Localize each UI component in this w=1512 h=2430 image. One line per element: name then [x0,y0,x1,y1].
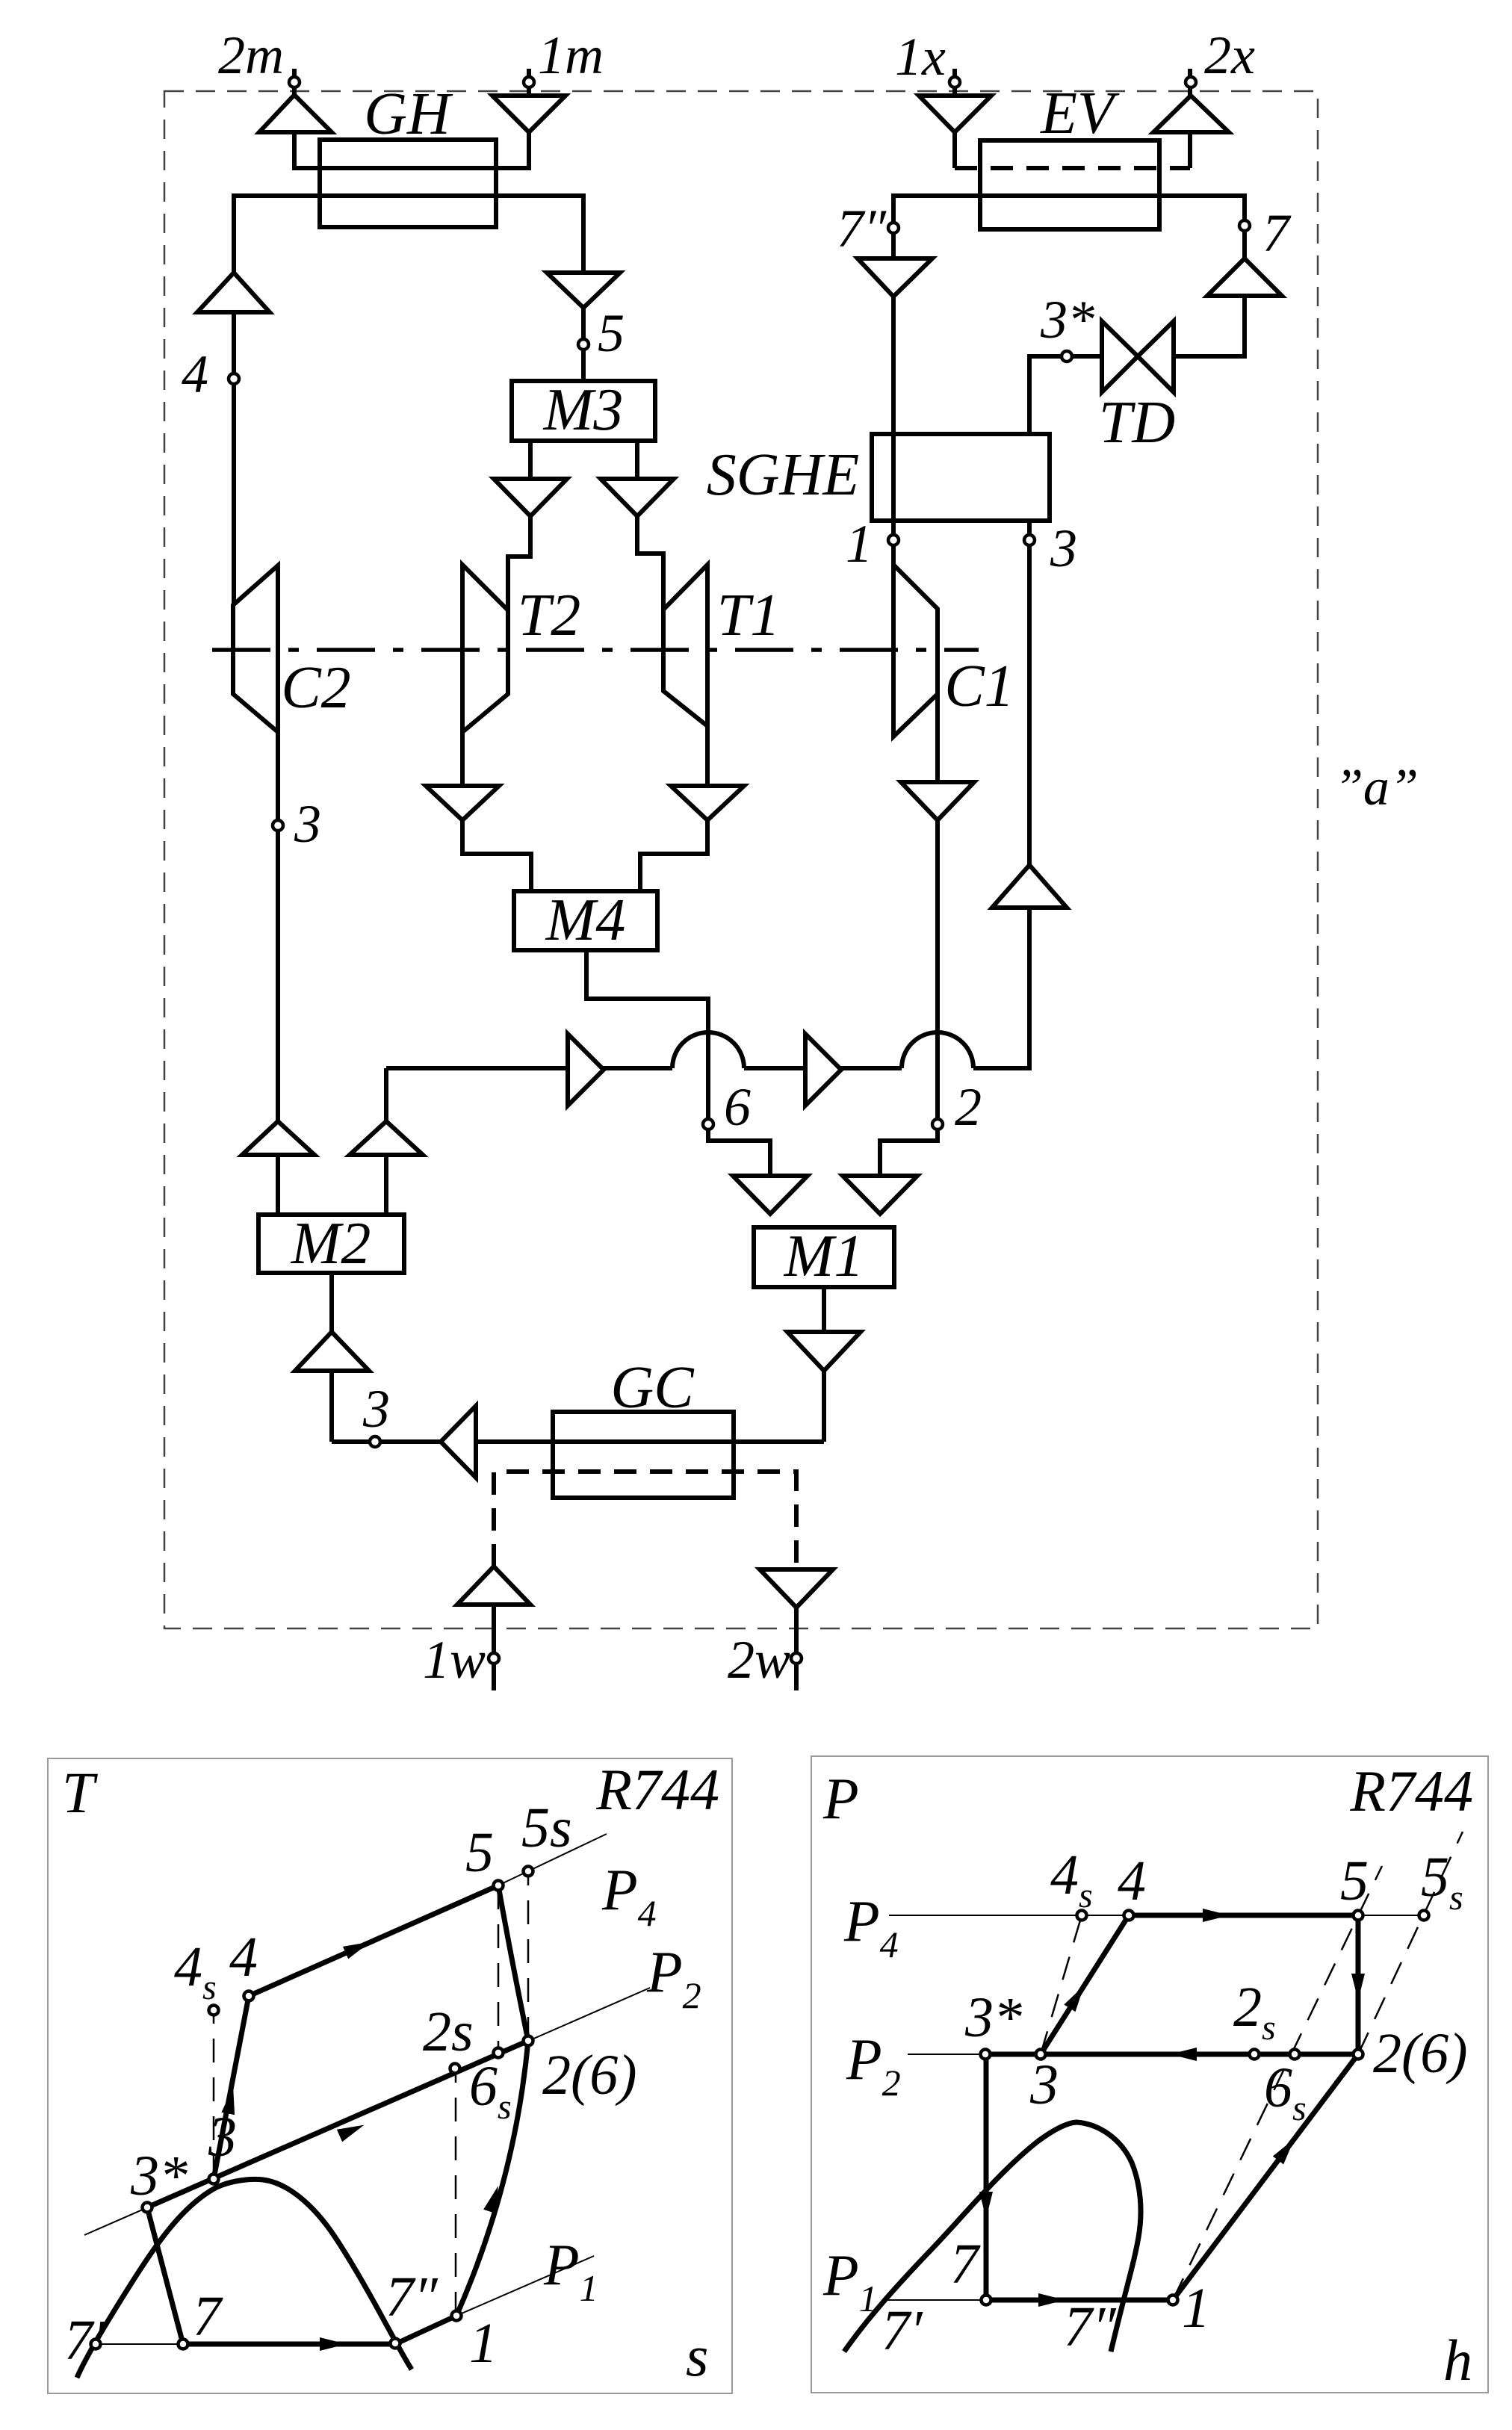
wire M1 outlet to GC line [822,1287,826,1442]
label 1x [895,27,946,87]
svg-text:2s: 2s [423,2000,474,2063]
isentrope dashed 2(6)-5s [527,1873,530,2041]
label T axis [62,1760,98,1825]
node 3 at GC [370,1436,380,1447]
svg-text:1m: 1m [538,25,604,85]
svg-text:2(6): 2(6) [542,2044,637,2107]
label M3 [543,377,624,443]
svg-text:M4: M4 [545,887,626,953]
point 2s (T-s) [450,2064,460,2074]
label 5s (P-h) [1421,1846,1463,1918]
isentrope dashed 3-4s [213,2010,215,2179]
wire C1 outlet down to node 2 and M1 [880,609,938,1176]
label 7" [837,199,887,258]
arrowhead on 3-4 [221,2086,240,2115]
label C2 [281,655,350,721]
arrow down below 7" [858,258,932,297]
node 5 [578,339,589,350]
point 3 (P-h) [1036,2050,1046,2059]
label 3 at GC [362,1379,390,1439]
node 3* [1062,351,1072,362]
label P2 (P-h) [846,2027,901,2104]
arrow down M3 right branch [601,479,674,516]
arrowhead on 7-7" [320,2337,347,2351]
svg-text:EV: EV [1040,81,1120,146]
label 5s (T-s) [521,1797,572,1859]
arrowhead on 5-2(6) (P-h) [1351,1974,1365,2000]
node 7" [888,223,899,233]
label T1 [717,583,781,648]
wire node5 to M3 [581,350,586,381]
svg-text:C1: C1 [944,654,1014,719]
svg-text:1: 1 [846,514,873,574]
label 3 below C2 [294,794,321,854]
wire EV medium dashed line 1x-2x [955,69,1190,168]
mixer box M2 [258,1215,404,1273]
label P2 (T-s) [646,1939,701,2016]
label 2s (P-h) [1233,1976,1276,2048]
point 7 (P-h) [982,2296,991,2305]
label 7' (T-s) [64,2309,106,2372]
label 1 (P-h) [1182,2277,1210,2340]
label M2 [291,1211,371,1277]
wire C2 outlet pipe (right edge down to M2 arrow) [276,565,280,1121]
point 6s (P-h) [1290,2050,1300,2059]
wire 2w stub [794,1608,799,1690]
arrow down T2 outlet [426,786,499,820]
label 2w [728,1630,790,1690]
label 1w [423,1630,486,1690]
heat exchanger SGHE [872,434,1050,521]
wire GC water dashed circuit [494,1472,796,1569]
wire M2 inlet from GC corner [329,1273,334,1442]
label 2s (T-s) [423,2000,474,2063]
process line 7-7" [183,2342,395,2347]
arrow down M3 left branch [494,479,567,516]
isentrope dashed 5-6s [498,1885,500,2053]
arrowhead on 3-4 (P-h) [1064,1982,1089,2012]
node 7 [1239,220,1250,231]
arrow right on main line 2 [805,1034,841,1106]
isobar P1 thin line (P-h) [886,2299,1173,2301]
arrowhead on 1-2(6) (P-h) [1273,2135,1300,2165]
process line 5-2(6) [498,1885,528,2041]
mixer box M3 [512,381,655,441]
label GC [610,1355,695,1421]
label 1 (T-s) [469,2312,498,2375]
node 4 [229,374,239,384]
point 2(6) (P-h) [1354,2050,1363,2059]
label 3* (P-h) [964,1986,1022,2049]
arrow up on 7 line [1207,258,1282,296]
point 2s (P-h) [1250,2050,1260,2059]
svg-text:T: T [62,1760,98,1825]
label 7 (T-s) [193,2285,223,2348]
node 2w [791,1653,802,1664]
svg-text:2w: 2w [728,1630,790,1690]
arrow down C1 outlet [901,782,974,820]
label 2(6) (P-h) [1373,2022,1468,2085]
point 5 (T-s) [494,1881,504,1891]
node 3 below C2 [273,820,283,831]
node 6 [703,1119,713,1129]
label 3* (T-s) [130,2145,188,2207]
process line 4-5 (P-h) [1129,1913,1358,1918]
svg-text:T2: T2 [518,583,581,648]
svg-text:7′: 7′ [882,2299,923,2362]
wire T1 outlet to M4 [640,726,707,891]
label C1 [944,654,1014,719]
svg-text:5s: 5s [521,1797,572,1859]
heat exchanger GH [320,140,496,227]
label 3 at SGHE [1050,518,1077,578]
point 7" (T-s) [391,2339,400,2349]
wire M3 to T1 inlet [637,441,663,610]
svg-text:7: 7 [1262,203,1292,263]
label M1 [784,1224,864,1289]
arrowhead on 4-5 (P-h) [1203,1909,1230,1922]
svg-text:M1: M1 [784,1224,864,1289]
svg-text:”a”: ”a” [1334,759,1419,816]
svg-text:7″: 7″ [385,2266,439,2328]
arrowhead on 7-1 (P-h) [1038,2293,1065,2307]
label 7 (P-h) [950,2233,981,2296]
arrow down after GH right [547,273,620,308]
point 3* (T-s) [143,2203,152,2213]
svg-text:GH: GH [364,81,453,147]
svg-text:3: 3 [362,1379,390,1439]
isobar P1 thin line [456,2256,594,2316]
arrow down at 1m [492,96,566,132]
arrow down T1 outlet [671,786,744,820]
mixer box M1 [754,1227,894,1287]
svg-text:5: 5 [465,1821,494,1884]
arrow down into M1 left [733,1176,808,1214]
svg-text:C2: C2 [281,655,350,721]
isobar P2 thin line (P-h) [908,2054,1358,2055]
wire 1w stub [492,1605,496,1690]
mixer box M4 [514,891,657,950]
node 3 at SGHE [1024,535,1035,545]
isentrope dashed 1-2s [455,2068,457,2316]
process line 4-5 [249,1885,498,1996]
svg-text:6: 6 [724,1077,751,1137]
arrow up on SGHE feed line [992,865,1067,908]
arrowhead on 1-2(6) [483,2184,504,2214]
node 2 [932,1119,943,1129]
point 1 (P-h) [1168,2296,1178,2305]
svg-text:2m: 2m [218,25,284,85]
wire 7" line through SGHE to C1 [891,297,896,565]
svg-text:3*: 3* [964,1986,1022,2049]
label 7 [1262,203,1292,263]
isobar P4 thin line (P-h) [889,1915,1424,1916]
node 1 [888,535,899,545]
arrowhead on 3*-7 (P-h) [979,2192,993,2219]
label P1 (T-s) [543,2232,598,2309]
arrow left on GC line [441,1406,476,1478]
node 1x [949,77,960,87]
label 7' (P-h) [882,2299,923,2362]
svg-text:h: h [1443,2328,1472,2393]
svg-text:1x: 1x [895,27,946,87]
label T2 [518,583,581,648]
wire M3 to T2 inlet [508,441,530,610]
point 5s (P-h) [1419,1911,1429,1921]
point 6s (T-s) [494,2048,504,2058]
arrow down at 1x [919,96,991,132]
arrow up at 2x [1153,96,1229,132]
label h axis [1443,2328,1472,2393]
label SGHE [707,442,859,508]
wire GC refrigerant line M1 to M2 corner [332,1439,824,1444]
label 4 (T-s) [229,1926,258,1989]
point 5 (P-h) [1354,1911,1363,1921]
label "a" [1334,759,1419,816]
arrow up before GH left [197,273,270,312]
node 2x [1186,77,1196,87]
svg-text:5: 5 [1340,1850,1369,1912]
svg-text:M3: M3 [543,377,624,443]
arrow down M1 outlet [787,1332,861,1371]
tie line 7p-7 [96,2343,183,2345]
system boundary dashed box "a" [164,91,1318,1628]
process line 1-2(6) [456,2041,528,2316]
process line 7-1 (P-h) [986,2298,1173,2303]
svg-text:2(6): 2(6) [1373,2022,1468,2085]
wire TD to SGHE via 3* [1029,356,1102,434]
point 5s (T-s) [524,1867,533,1876]
point 4 (T-s) [244,1992,254,2001]
label 4 [182,344,208,404]
svg-text:T1: T1 [717,583,781,648]
label 1m [538,25,604,85]
wire main line M2 to SGHE with bridges [386,908,1029,1068]
wire M4 outlet to node 6 and M1 [586,950,770,1176]
throttling valve TD [1102,321,1174,392]
svg-text:7″: 7″ [1064,2296,1117,2358]
label 6s (T-s) [469,2055,512,2127]
P-h diagram panel frame [811,1756,1488,2393]
process line 1-2(6) (P-h) [1173,2054,1358,2300]
svg-text:4: 4 [1118,1850,1146,1912]
svg-text:3*: 3* [130,2145,188,2207]
point 7 (T-s) [179,2340,188,2349]
svg-text:3: 3 [1029,2054,1059,2116]
node 1m [524,77,534,87]
isentrope dashed 3-4s (P-h) [1041,1915,1082,2054]
svg-text:R744: R744 [1349,1758,1473,1823]
node 1w [489,1653,499,1664]
process line 2(6)-3-3* (P-h) [985,2052,1358,2057]
wire GH refrigerant line node4 to node5 [234,196,583,605]
label EV [1040,81,1120,146]
arrowhead on 2(6)-3 (P-h) [1170,2048,1197,2061]
svg-text:7′: 7′ [64,2309,106,2372]
label 6s (P-h) [1264,2056,1307,2128]
turbine T2 [462,565,508,732]
svg-text:7: 7 [193,2285,223,2348]
point 3 (T-s) [209,2175,219,2184]
heat exchanger EV [980,140,1159,229]
process line 3-4 (P-h) [1041,1915,1129,2054]
svg-text:GC: GC [610,1355,695,1421]
node 2m [289,77,300,87]
svg-text:M2: M2 [291,1211,371,1277]
svg-text:5: 5 [598,303,625,363]
svg-text:1w: 1w [423,1630,486,1690]
arrow up M2 right branch [350,1121,423,1155]
compressor C1 [893,565,938,737]
label 4 (P-h) [1118,1850,1146,1912]
wire M2 right branch to main line [384,1068,388,1215]
label 3 (P-h) [1029,2054,1059,2116]
arrow up into M2 [295,1332,369,1371]
T-s diagram panel frame [48,1758,732,2393]
isobar P2 thin line [84,1988,650,2235]
arrowhead on P2 process line [337,2118,367,2142]
label 7" (T-s) [385,2266,439,2328]
turbine T1 [663,565,707,726]
svg-text:1: 1 [1182,2277,1210,2340]
svg-text:3*: 3* [1040,290,1094,350]
isobar P4 thin line [486,1834,607,1891]
point 3* (P-h) [981,2050,991,2059]
label 2 [955,1077,982,1137]
label GH [364,81,453,147]
isentrope dashed 1-6s-5 (P-h) [1173,1866,1382,2300]
label 4s (T-s) [174,1935,217,2007]
svg-text:SGHE: SGHE [707,442,859,508]
point 7' (T-s) [91,2340,101,2349]
heat exchanger GC [553,1412,734,1498]
wire GH medium line 2m-1m [294,69,529,168]
label s axis [686,2323,708,2388]
wire T2 outlet to M4 [462,732,531,891]
svg-text:7″: 7″ [837,199,887,258]
label 5 (P-h) [1340,1850,1369,1912]
label 5 (T-s) [465,1821,494,1884]
compressor C2 [233,565,278,732]
process line 5-2(6) (P-h) [1356,1915,1361,2054]
isentrope dashed 2(6)-5s (P-h) [1358,1832,1463,2054]
label P1 (P-h) [822,2243,878,2319]
label 3 (T-s) [208,2106,237,2169]
svg-text:1: 1 [469,2312,498,2375]
label P4 (P-h) [843,1888,899,1965]
arrow up at 2m [259,95,332,132]
label 3* [1040,290,1094,350]
process line 2(6)-3-3* along P2 [147,2041,528,2207]
label 2(6) (T-s) [542,2044,637,2107]
arrowhead on 4-5 [343,1935,373,1959]
arrow right on main line 1 [568,1034,604,1106]
process line 7"-1 [395,2316,456,2344]
svg-text:4: 4 [229,1926,258,1989]
arrow up at 1w [457,1566,530,1605]
label 1 [846,514,873,574]
svg-text:TD: TD [1099,390,1175,456]
svg-text:3: 3 [294,794,321,854]
process line 3-4 [214,1996,249,2179]
arrow down into M1 right [843,1176,917,1214]
label 7" (P-h) [1064,2296,1117,2358]
label R744 (T-s) [595,1757,719,1822]
svg-text:4: 4 [182,344,208,404]
saturation dome (P-h) [844,2122,1141,2352]
svg-text:R744: R744 [595,1757,719,1822]
point 4 (P-h) [1124,1911,1134,1921]
wire M2 left stub [276,1155,280,1215]
label 2x [1204,25,1255,85]
wire SGHE right port down to main line [1027,521,1032,908]
svg-text:2x: 2x [1204,25,1255,85]
shaft dash-dot line C2-T2-T1-C1 [212,648,979,652]
label P4 (T-s) [601,1857,657,1934]
label R744 (P-h) [1349,1758,1473,1823]
label 4s (P-h) [1050,1844,1093,1915]
svg-text:3: 3 [1050,518,1077,578]
label 5 [598,303,625,363]
svg-text:2: 2 [955,1077,982,1137]
svg-text:s: s [686,2323,708,2388]
svg-text:3: 3 [208,2106,237,2169]
label P axis [822,1766,859,1831]
label 6 [724,1077,751,1137]
label 2m [218,25,284,85]
point 1 (T-s) [452,2311,462,2321]
arrow down at 2w [760,1569,833,1608]
point 4s (T-s) [209,2006,219,2015]
label TD [1099,390,1175,456]
wire EV refrigerant line 7" side to 7 side [893,196,1245,356]
svg-text:P: P [822,1766,859,1831]
label M4 [545,887,626,953]
point 2(6) (T-s) [524,2036,533,2046]
saturation dome (T-s) [77,2179,412,2378]
svg-text:7: 7 [950,2233,981,2296]
arrow up M2 to C2 branch [242,1121,315,1155]
process line 3*-7 [147,2207,183,2344]
process line 3*-7 (P-h) [984,2054,989,2300]
point 4s (P-h) [1077,1911,1087,1921]
